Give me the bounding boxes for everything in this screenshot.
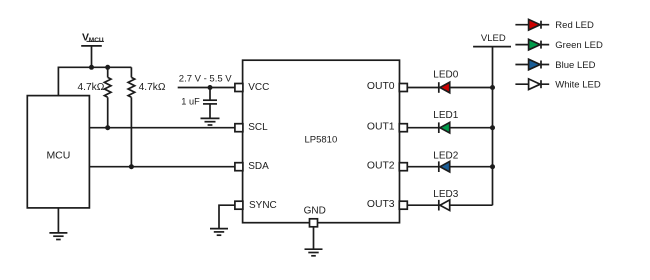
wire SYNC to ground: [219, 205, 235, 228]
pin OUT3: [399, 201, 407, 209]
resistor R2 4.7k: [128, 67, 135, 166]
node junction rail LED1: [490, 125, 495, 130]
capacitor C1 1uF: [203, 88, 217, 119]
svg-text:Blue LED: Blue LED: [555, 60, 595, 71]
svg-text:4.7kΩ: 4.7kΩ: [78, 82, 105, 93]
svg-text:LED2: LED2: [433, 150, 458, 161]
wire OUT0 to VLED rail: [407, 87, 493, 89]
node junction R2 bottom on SDA: [129, 164, 134, 169]
svg-text:LED0: LED0: [433, 70, 458, 81]
ground (MCU): [49, 208, 67, 240]
LED1 green diode: [439, 122, 450, 133]
LED3 white diode: [439, 200, 450, 211]
wire GND pin to ground: [313, 227, 315, 250]
supply wire 2.7V-5.5V to VCC: [178, 87, 236, 89]
pin OUT1: [399, 124, 407, 132]
pin OUT2: [399, 163, 407, 171]
wire OUT1 to VLED rail: [407, 127, 493, 129]
svg-text:Green LED: Green LED: [555, 40, 603, 51]
legend green LED symbol: [515, 39, 549, 50]
MCU block: [27, 96, 89, 208]
svg-text:1 uF: 1 uF: [181, 96, 200, 106]
ground (GND pin): [305, 249, 323, 256]
wire VMCU rail: [58, 67, 131, 95]
node junction rail LED0: [490, 85, 495, 90]
svg-text:White LED: White LED: [555, 80, 601, 91]
svg-text:VLED: VLED: [481, 33, 506, 44]
svg-text:LP5810: LP5810: [305, 134, 338, 145]
LED0 red diode: [439, 82, 450, 93]
svg-text:2.7 V - 5.5 V: 2.7 V - 5.5 V: [179, 73, 232, 84]
svg-text:OUT2: OUT2: [367, 160, 395, 171]
node junction R1 top: [105, 65, 110, 70]
svg-text:Red LED: Red LED: [555, 20, 594, 31]
pin SDA: [235, 163, 243, 171]
node junction capacitor tap: [208, 85, 213, 90]
svg-text:4.7kΩ: 4.7kΩ: [139, 82, 166, 93]
wire SCL: [89, 127, 235, 129]
svg-text:OUT3: OUT3: [367, 199, 395, 210]
pin GND: [310, 219, 318, 227]
IC LP5810: [243, 60, 400, 223]
pin SCL: [235, 124, 243, 132]
legend white LED symbol: [515, 79, 549, 90]
power VMCU symbol: [81, 41, 104, 67]
svg-text:MCU: MCU: [46, 150, 70, 162]
node junction R1 bottom on SCL: [105, 125, 110, 130]
resistor R1 4.7k: [104, 67, 111, 127]
svg-text:SCL: SCL: [248, 122, 268, 133]
svg-text:LED1: LED1: [433, 110, 458, 121]
pin SYNC: [235, 201, 243, 209]
ground (capacitor): [201, 118, 220, 125]
svg-text:GND: GND: [304, 205, 326, 216]
ground (SYNC): [210, 229, 228, 236]
legend blue LED symbol: [515, 59, 549, 70]
legend red LED symbol: [515, 19, 549, 30]
svg-text:SYNC: SYNC: [249, 200, 277, 211]
pin OUT0: [399, 84, 407, 92]
node junction rail LED2: [490, 164, 495, 169]
svg-text:OUT0: OUT0: [367, 81, 395, 92]
VLED rail vertical: [492, 47, 494, 206]
svg-text:VCC: VCC: [248, 82, 269, 93]
LED2 blue diode: [439, 161, 450, 172]
svg-text:MCU: MCU: [89, 37, 104, 44]
svg-text:LED3: LED3: [433, 189, 458, 200]
wire SDA: [89, 166, 235, 168]
node junction VMCU stem: [89, 65, 94, 70]
svg-text:SDA: SDA: [248, 161, 269, 172]
wire OUT3 to VLED rail: [407, 204, 493, 206]
pin VCC: [235, 84, 243, 92]
power VLED bar: [473, 46, 511, 48]
svg-text:OUT1: OUT1: [367, 121, 395, 132]
wire OUT2 to VLED rail: [407, 166, 493, 168]
